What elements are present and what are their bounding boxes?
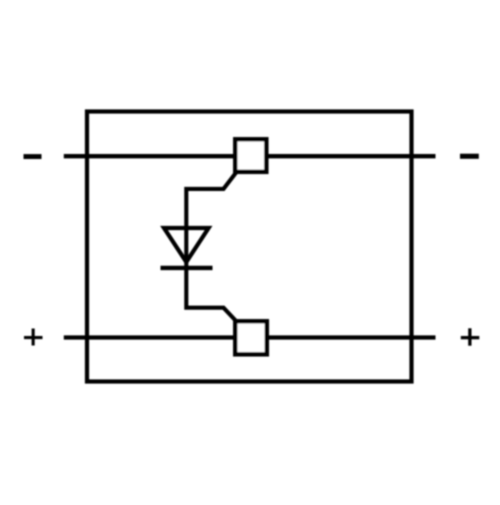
plus symbol left (24, 329, 43, 346)
top clamp contact square (235, 139, 266, 172)
minus symbol right (460, 154, 479, 159)
wire: top negative rail (64, 154, 436, 158)
diode D1 cathode bar (161, 266, 213, 270)
minus symbol left (24, 154, 42, 159)
wire: bottom positive rail (64, 335, 436, 339)
terminal block outline (enclosure box) (87, 112, 412, 382)
plus symbol right (461, 328, 480, 345)
bottom clamp contact square (235, 321, 266, 354)
diode D1 triangle (anode, pointing down) (164, 228, 209, 262)
wire: jumper from top clamp to diode and diode to bottom clamp (186, 172, 236, 322)
